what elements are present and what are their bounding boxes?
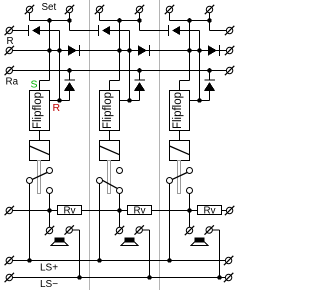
svg-text:LS−: LS− [40, 279, 58, 290]
wire Ra bus row [13, 70, 227, 72]
junction Set bus / X2b [137, 18, 142, 23]
svg-text:Flipflop: Flipflop [172, 92, 184, 129]
wire LS- bus [13, 277, 226, 279]
junction LS+ ch1 [27, 258, 32, 263]
junction LS- ch2 [147, 275, 152, 280]
wire Set step to ch3 reset diode [140, 21, 169, 31]
label R (red) ch1 [53, 102, 61, 114]
junction S line / R bus ch3 [187, 48, 192, 53]
wire LS+ bus [13, 260, 226, 262]
terminal right on Rv row [225, 206, 234, 215]
switch contact upper ch1 [47, 168, 53, 174]
wire pivot to LS+ ch1 [29, 184, 31, 261]
wire pivot to LS+ ch2 [99, 184, 101, 261]
flipflop U1 [30, 91, 50, 131]
terminal X3b (top) [205, 5, 214, 21]
svg-text:Rv: Rv [64, 206, 76, 217]
wire D2a anode to R column ch2 [110, 31, 129, 101]
switch pivot contact ch2 [97, 178, 103, 184]
wire Set step to ch2 reset diode [70, 21, 99, 31]
wire lower contact to speaker terminal ch1 [49, 194, 51, 228]
svg-text:Flipflop: Flipflop [32, 92, 44, 129]
speaker LS1 [51, 238, 68, 246]
wire R bus row [13, 50, 227, 52]
junction LS+ ch3 [167, 258, 172, 263]
terminal left on Rv row [5, 206, 14, 215]
terminal R (reset, left edge) [5, 26, 14, 35]
mechanical link K1 [38, 161, 41, 194]
terminal speaker + ch1 [45, 226, 54, 235]
mechanical link K3 [178, 161, 181, 194]
wire speaker - to LS- ch2 [143, 230, 150, 278]
junction LS- ch3 [217, 275, 222, 280]
wire pivot to LS+ ch3 [169, 184, 171, 261]
terminal speaker - ch2 [135, 225, 144, 234]
svg-text:Flipflop: Flipflop [102, 92, 114, 129]
diode D3b (R bus series, pointing right) [208, 45, 220, 56]
junction S line / R bus ch1 [47, 48, 52, 53]
junction LS- ch1 [77, 275, 82, 280]
terminal X2a (Set, top) [95, 5, 104, 21]
label Ra [6, 77, 19, 88]
junction Set bus / S line ch1 [47, 18, 52, 23]
label LS- [40, 279, 58, 290]
wire D1a anode to R column ch1 [40, 31, 59, 101]
wire lower contact to speaker terminal ch2 [119, 194, 121, 228]
wire R terminal to diode D1a [13, 30, 29, 32]
diode D1c (Ra, pointing up) [64, 71, 75, 101]
terminal X2b (top) [135, 5, 144, 21]
speaker LS3 [191, 238, 208, 246]
flipflop U2 [100, 91, 120, 131]
terminal right on R bus row [225, 46, 234, 55]
junction R column / R bus ch1 [57, 48, 62, 53]
junction Set bus / S line ch2 [117, 18, 122, 23]
junction R column / R input ch1 [57, 98, 62, 103]
relay coil K3 [170, 141, 190, 161]
svg-text:LS+: LS+ [40, 263, 58, 274]
wire flipflop output ch3 [179, 131, 181, 141]
terminal LS- (left edge) [5, 273, 14, 282]
junction Set bus / X1b [67, 18, 72, 23]
wire Set bus ch3 [170, 20, 210, 22]
switch contact lower ch3 [187, 188, 193, 194]
terminal LS- (right edge) [224, 273, 233, 282]
terminal speaker + ch3 [185, 226, 194, 235]
junction Rv row ch2 [117, 208, 122, 213]
mechanical link K2 [108, 161, 111, 194]
wire R input line ch2 [120, 100, 140, 102]
junction R column / R bus ch3 [197, 48, 202, 53]
junction Ra bus / D2c ch2 [137, 68, 142, 73]
terminal speaker - ch3 [205, 225, 214, 234]
wire D3a anode to R column ch3 [180, 31, 199, 101]
switch contact upper ch2 [117, 168, 123, 174]
wire flipflop output ch1 [39, 131, 41, 141]
junction Ra bus / D3c ch3 [207, 68, 212, 73]
diode D1b (R bus series, pointing right) [68, 45, 80, 56]
terminal X1b (top) [65, 5, 74, 21]
junction S line / R bus ch2 [117, 48, 122, 53]
terminal speaker - ch1 [65, 225, 74, 234]
resistor Rv1 [58, 206, 82, 217]
junction Rv row ch1 [47, 208, 52, 213]
wire Rv row [13, 210, 227, 212]
wire S line ch1 [40, 21, 50, 91]
vertical channel separator 1 [89, 0, 91, 290]
svg-text:Set: Set [42, 2, 57, 13]
wire S line ch3 [180, 21, 190, 91]
svg-text:Rv: Rv [134, 206, 146, 217]
junction R column / R input ch3 [197, 98, 202, 103]
label S (green) ch1 [31, 79, 38, 91]
diode D2a (reset input, pointing left) [99, 25, 111, 36]
diode D3c (Ra, pointing up) [204, 71, 215, 101]
wire R input line ch3 [190, 100, 210, 102]
terminal left on R bus row [5, 46, 14, 55]
junction Ra bus / D1c ch1 [67, 68, 72, 73]
switch contact lower ch2 [117, 188, 123, 194]
svg-text:R: R [53, 102, 61, 114]
resistor Rv3 [198, 206, 222, 217]
terminal X3a (Set, top) [165, 5, 174, 21]
wire Set step to right terminal [210, 21, 227, 31]
junction R column / R bus ch2 [127, 48, 132, 53]
wire speaker - to LS- ch3 [213, 230, 220, 278]
wire S line ch2 [110, 21, 120, 91]
label LS+ [40, 263, 58, 274]
relay coil K2 [100, 141, 120, 161]
junction LS+ ch2 [97, 258, 102, 263]
terminal right on reset row [225, 26, 234, 35]
wire Set bus ch2 [100, 20, 140, 22]
terminal LS+ (left edge) [5, 256, 14, 265]
switch arm ch3 (open) [172, 173, 187, 180]
junction Rv row ch3 [187, 208, 192, 213]
diode D2b (R bus series, pointing right) [138, 45, 150, 56]
terminal right on Ra bus row [225, 66, 234, 75]
switch arm ch1 (open) [32, 173, 47, 180]
switch pivot contact ch1 [27, 178, 33, 184]
flipflop U3 [170, 91, 190, 131]
diode D2c (Ra, pointing up) [134, 71, 145, 101]
label Set [42, 2, 57, 13]
switch arm ch2 (closed) [102, 180, 117, 188]
resistor Rv2 [128, 206, 152, 217]
diode D1a (reset input, pointing left) [29, 25, 41, 36]
junction Set bus / X3b [207, 18, 212, 23]
relay coil K1 [30, 141, 50, 161]
wire lower contact to speaker terminal ch3 [189, 194, 191, 228]
terminal X1a (Set, top) [25, 5, 34, 21]
switch contact lower ch1 [47, 188, 53, 194]
wire Set bus ch1 [30, 20, 70, 22]
wire flipflop output ch2 [109, 131, 111, 141]
speaker LS2 [121, 238, 138, 246]
diode D3a (reset input, pointing left) [169, 25, 181, 36]
label R [7, 36, 14, 47]
svg-text:R: R [7, 36, 14, 47]
svg-text:S: S [31, 79, 38, 91]
junction Set bus / S line ch3 [187, 18, 192, 23]
wire speaker - to LS- ch1 [73, 230, 80, 278]
junction R column / R input ch2 [127, 98, 132, 103]
vertical channel separator 2 [159, 0, 161, 290]
svg-text:Rv: Rv [204, 206, 216, 217]
switch pivot contact ch3 [167, 178, 173, 184]
wire R input line ch1 [50, 100, 70, 102]
switch contact upper ch3 [187, 168, 193, 174]
terminal speaker + ch2 [115, 226, 124, 235]
terminal LS+ (right edge) [224, 256, 233, 265]
terminal Ra (left edge) [5, 66, 14, 75]
svg-text:Ra: Ra [6, 77, 19, 88]
